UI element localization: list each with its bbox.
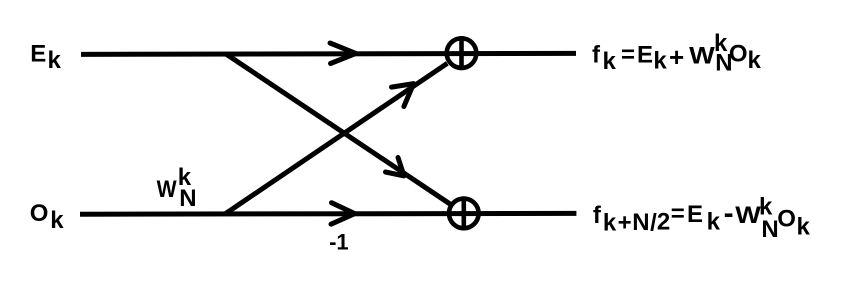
node Ek label xyxy=(30,41,61,74)
equation fk = Ek + WNk Ok xyxy=(592,30,762,77)
svg-text:W: W xyxy=(689,43,715,70)
svg-text:+: + xyxy=(618,210,632,237)
svg-text:k: k xyxy=(48,47,62,74)
wire diagonal Ek to bottom adder xyxy=(226,54,450,204)
svg-text:f: f xyxy=(592,42,601,69)
svg-text:E: E xyxy=(687,201,703,228)
svg-text:k: k xyxy=(603,48,617,75)
svg-text:=: = xyxy=(621,42,635,69)
svg-text:=: = xyxy=(671,200,685,227)
adder bottom (circle-plus) xyxy=(449,196,479,230)
svg-text:W: W xyxy=(157,176,177,203)
svg-text:W: W xyxy=(735,202,761,229)
svg-text:-: - xyxy=(724,197,734,230)
svg-text:O: O xyxy=(777,206,796,233)
svg-text:k: k xyxy=(653,48,667,75)
svg-text:2: 2 xyxy=(657,208,670,235)
svg-text:E: E xyxy=(30,41,46,68)
arrow on down diagonal xyxy=(386,158,405,176)
adder top (circle-plus) xyxy=(447,36,477,70)
svg-text:k: k xyxy=(50,207,64,234)
svg-text:O: O xyxy=(30,200,49,227)
svg-text:O: O xyxy=(729,41,748,68)
equation fk+N/2 = Ek - WNk Ok xyxy=(593,193,811,243)
wire top horizontal Ek to fk xyxy=(81,53,576,54)
arrow on bottom wire xyxy=(331,203,355,225)
twiddle factor WNk label xyxy=(157,164,197,212)
svg-text:k: k xyxy=(797,214,811,241)
arrow on up diagonal xyxy=(392,84,414,107)
svg-text:-1: -1 xyxy=(329,230,349,255)
svg-text:N: N xyxy=(179,185,196,212)
svg-text:k: k xyxy=(603,210,617,237)
svg-text:E: E xyxy=(637,42,653,69)
svg-text:k: k xyxy=(707,209,721,236)
svg-text:k: k xyxy=(748,47,762,74)
svg-text:+: + xyxy=(669,42,684,72)
svg-text:N: N xyxy=(632,209,649,236)
arrow on top wire xyxy=(330,43,356,64)
svg-text:N: N xyxy=(761,216,778,243)
wire bottom horizontal Ok to fk+N/2 xyxy=(80,211,576,217)
node Ok label xyxy=(30,200,65,234)
svg-text:f: f xyxy=(593,202,602,229)
wire diagonal Ok to top adder xyxy=(225,63,447,214)
